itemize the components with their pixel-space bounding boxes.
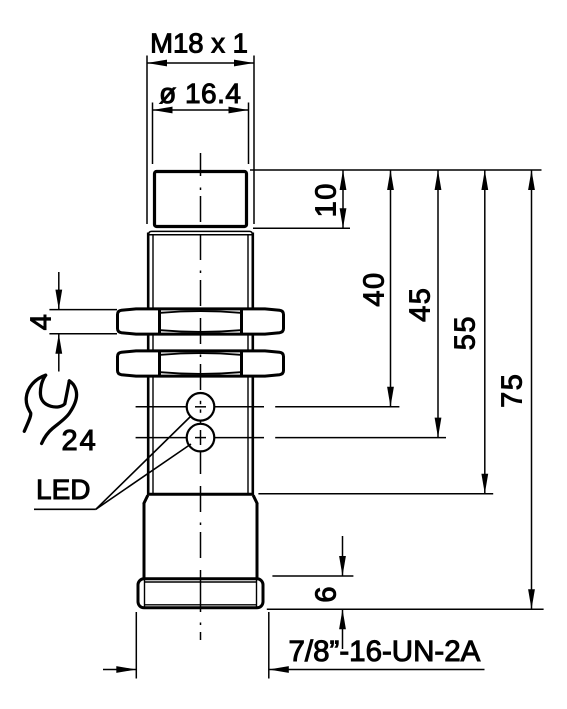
arrow 75 bottom [528,589,535,609]
arrow 45 top [435,170,442,190]
arrow 10 top [340,170,347,190]
body outer edge left [147,233,150,495]
svg-text:45: 45 [405,287,437,322]
svg-text:7/8”-16-UN-2A: 7/8”-16-UN-2A [289,635,481,668]
extension line 55 [258,493,493,495]
dimension 16.4 extension line right [248,103,250,165]
LED hole centerline 2 [136,437,264,439]
dimension 45 line [437,170,439,438]
LED 2 center marks [195,430,206,445]
arrow M18 right [234,60,254,67]
dimension 10 line [342,170,344,228]
arrow 55 bottom [481,474,488,494]
svg-text:75: 75 [496,373,528,408]
arrow 45 bottom [435,418,442,438]
central axis centerline [200,153,202,176]
shoulder chamfer left [144,495,148,504]
extension line 6 top [272,575,353,577]
body thread inner line left [152,235,154,494]
arrow 40 top [387,170,394,190]
body top chamfer line 1 [149,231,252,234]
dimension M18 extension line left [146,56,148,225]
extension line 45 [275,437,446,439]
LED 1 center marks [195,401,206,413]
ring inner line top [145,581,257,583]
LED label underline [34,508,96,510]
dimension 16.4 line [153,109,249,111]
arrow 6 top [339,556,346,576]
arrow 4 bottom [55,334,62,354]
svg-text:40: 40 [358,271,390,306]
dimension M18 extension line right [253,56,255,225]
dimension 75 line [531,170,533,609]
dimension 6 arrow line top [342,536,344,576]
bottom dimension extension line right [268,612,270,679]
arrow 55 top [481,170,488,190]
ring inner line right [256,579,258,609]
connector thread ring [138,579,263,608]
sensor cap (active face) [155,172,247,227]
arrow M18 left [147,60,167,67]
LED hole centerline 1 [136,406,264,408]
arrow 16.4 left [153,107,173,114]
LED window 1 [187,393,215,421]
ring inner line left [144,579,146,609]
bottom dimension line right [269,669,485,671]
extension line 40 [275,406,399,408]
dimension 55 line [484,170,486,494]
arrow 16.4 right [229,107,249,114]
svg-text:10: 10 [310,182,342,217]
svg-text:M18 x 1: M18 x 1 [150,28,248,59]
dimension M18 line [147,62,254,64]
arrow 10 bottom [340,208,347,228]
extension line 75 bottom [267,608,544,610]
dimension 40 line [390,170,392,407]
arrow 6 bottom [339,609,346,629]
svg-text:55: 55 [450,315,482,350]
LED leader line 2 [96,444,191,509]
svg-text:4: 4 [26,314,58,330]
barrel edge right [256,503,259,578]
wrench icon [24,375,76,443]
dimension 4 extension line top [49,309,117,311]
arrow 4 top [55,290,62,310]
svg-text:ø 16.4: ø 16.4 [159,78,241,109]
connector shoulder [147,493,254,496]
svg-text:LED: LED [36,474,90,505]
barrel edge left [143,503,146,578]
ring inner line bottom [145,604,257,606]
hex nut 2 [118,351,284,376]
dimension 16.4 extension line left [152,103,154,165]
dimension 4 arrow line top [58,272,60,310]
extension line 10 [253,227,350,229]
arrow 75 top [528,170,535,190]
shoulder chamfer right [253,495,257,504]
bottom dimension line left [103,669,136,671]
arrow 40 bottom [387,387,394,407]
dimension 6 arrow line bottom [342,609,344,649]
top face extension line [250,169,542,171]
arrow bottom right [269,666,289,673]
body top chamfer line 2 [148,234,253,236]
svg-text:24: 24 [62,425,98,457]
LED window 2 [187,424,215,452]
body outer edge right [252,233,255,495]
arrow bottom left [116,666,136,673]
svg-text:6: 6 [311,587,343,603]
bottom dimension extension line left [135,612,137,679]
dimension 4 arrow line bottom [58,334,60,372]
dimension 4 extension line bottom [49,333,117,335]
LED leader line 1 [96,417,191,510]
body thread inner line right [247,235,249,494]
hex nut 1 [118,309,284,334]
